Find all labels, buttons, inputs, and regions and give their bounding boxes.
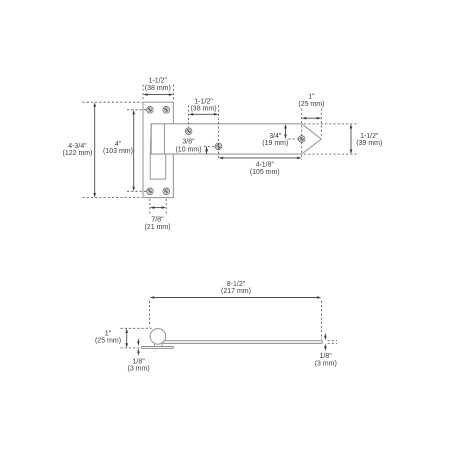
strap outline (top view) [150, 124, 321, 154]
side view barrel neck [155, 344, 163, 346]
svg-text:(3 mm): (3 mm) [315, 360, 337, 367]
dimension barrel height 1in 25mm [95, 328, 152, 348]
dimension strap width 1-1/2in 39mm [304, 124, 382, 154]
dimension leaf height 4-3/4in 122mm [63, 102, 142, 197]
svg-text:1-1/2": 1-1/2" [194, 98, 213, 105]
dimension plate width 1-1/2in 38mm [143, 78, 173, 102]
svg-text:(39 mm): (39 mm) [356, 140, 382, 147]
side view strap bar [160, 341, 322, 344]
leaf screw hole bottom-right [163, 188, 170, 195]
hinge knuckle barrel lower [150, 154, 165, 179]
dimension strap screw spacing 1-1/2in 38mm [189, 98, 219, 159]
svg-text:(3 mm): (3 mm) [128, 366, 150, 373]
dimension strap thickness 1/8in 3mm [315, 334, 337, 368]
svg-text:7/8": 7/8" [151, 216, 164, 223]
svg-text:4": 4" [115, 141, 122, 148]
svg-text:(217 mm): (217 mm) [221, 288, 251, 295]
strap screw hole 3 (tip) [298, 136, 305, 143]
svg-text:1-1/2": 1-1/2" [149, 78, 168, 85]
hinge knuckle barrel upper [151, 124, 164, 154]
svg-text:(122 mm): (122 mm) [63, 150, 93, 157]
svg-text:(38 mm): (38 mm) [190, 106, 216, 113]
dimension leaf screw column spacing 7/8in 21mm [144, 199, 170, 231]
svg-text:4-1/8": 4-1/8" [256, 162, 275, 169]
leaf screw hole bottom-left [147, 188, 154, 195]
svg-text:1/8": 1/8" [320, 353, 333, 360]
dimension strap tip 1in 25mm [298, 94, 324, 160]
svg-text:(103 mm): (103 mm) [103, 148, 133, 155]
dimension tip screw offset 3/4in 19mm [262, 124, 298, 147]
svg-text:(10 mm): (10 mm) [175, 146, 201, 153]
leaf screw hole top-right [163, 107, 170, 114]
side view leaf plate edge-on [142, 347, 174, 349]
strap screw hole 2 [215, 143, 222, 150]
svg-text:(21 mm): (21 mm) [144, 224, 170, 231]
svg-text:8-1/2": 8-1/2" [227, 281, 246, 288]
dimension screw offset 3/8in 10mm [175, 139, 215, 154]
svg-text:1": 1" [308, 94, 315, 101]
svg-text:1-1/2": 1-1/2" [360, 133, 379, 140]
strap screw hole 1 [185, 128, 192, 135]
dimension overall length 8-1/2in 217mm [150, 281, 322, 340]
svg-text:(19 mm): (19 mm) [262, 140, 288, 147]
leaf screw hole top-left [147, 107, 154, 114]
svg-text:3/8": 3/8" [182, 139, 195, 146]
dimension leaf screw spacing 4in 103mm [103, 110, 146, 192]
dimension strap screw span 4-1/8in 105mm [219, 157, 302, 177]
svg-text:(25 mm): (25 mm) [95, 338, 121, 345]
svg-text:(105 mm): (105 mm) [250, 169, 280, 176]
dimension leaf thickness 1/8in 3mm [128, 339, 150, 373]
svg-text:4-3/4": 4-3/4" [68, 143, 87, 150]
svg-text:(25 mm): (25 mm) [298, 101, 324, 108]
svg-text:(38 mm): (38 mm) [145, 85, 171, 92]
svg-text:1": 1" [105, 331, 112, 338]
hinge leaf plate (top view) [143, 102, 173, 197]
svg-text:1/8": 1/8" [132, 358, 145, 365]
side view barrel circle [150, 329, 166, 345]
